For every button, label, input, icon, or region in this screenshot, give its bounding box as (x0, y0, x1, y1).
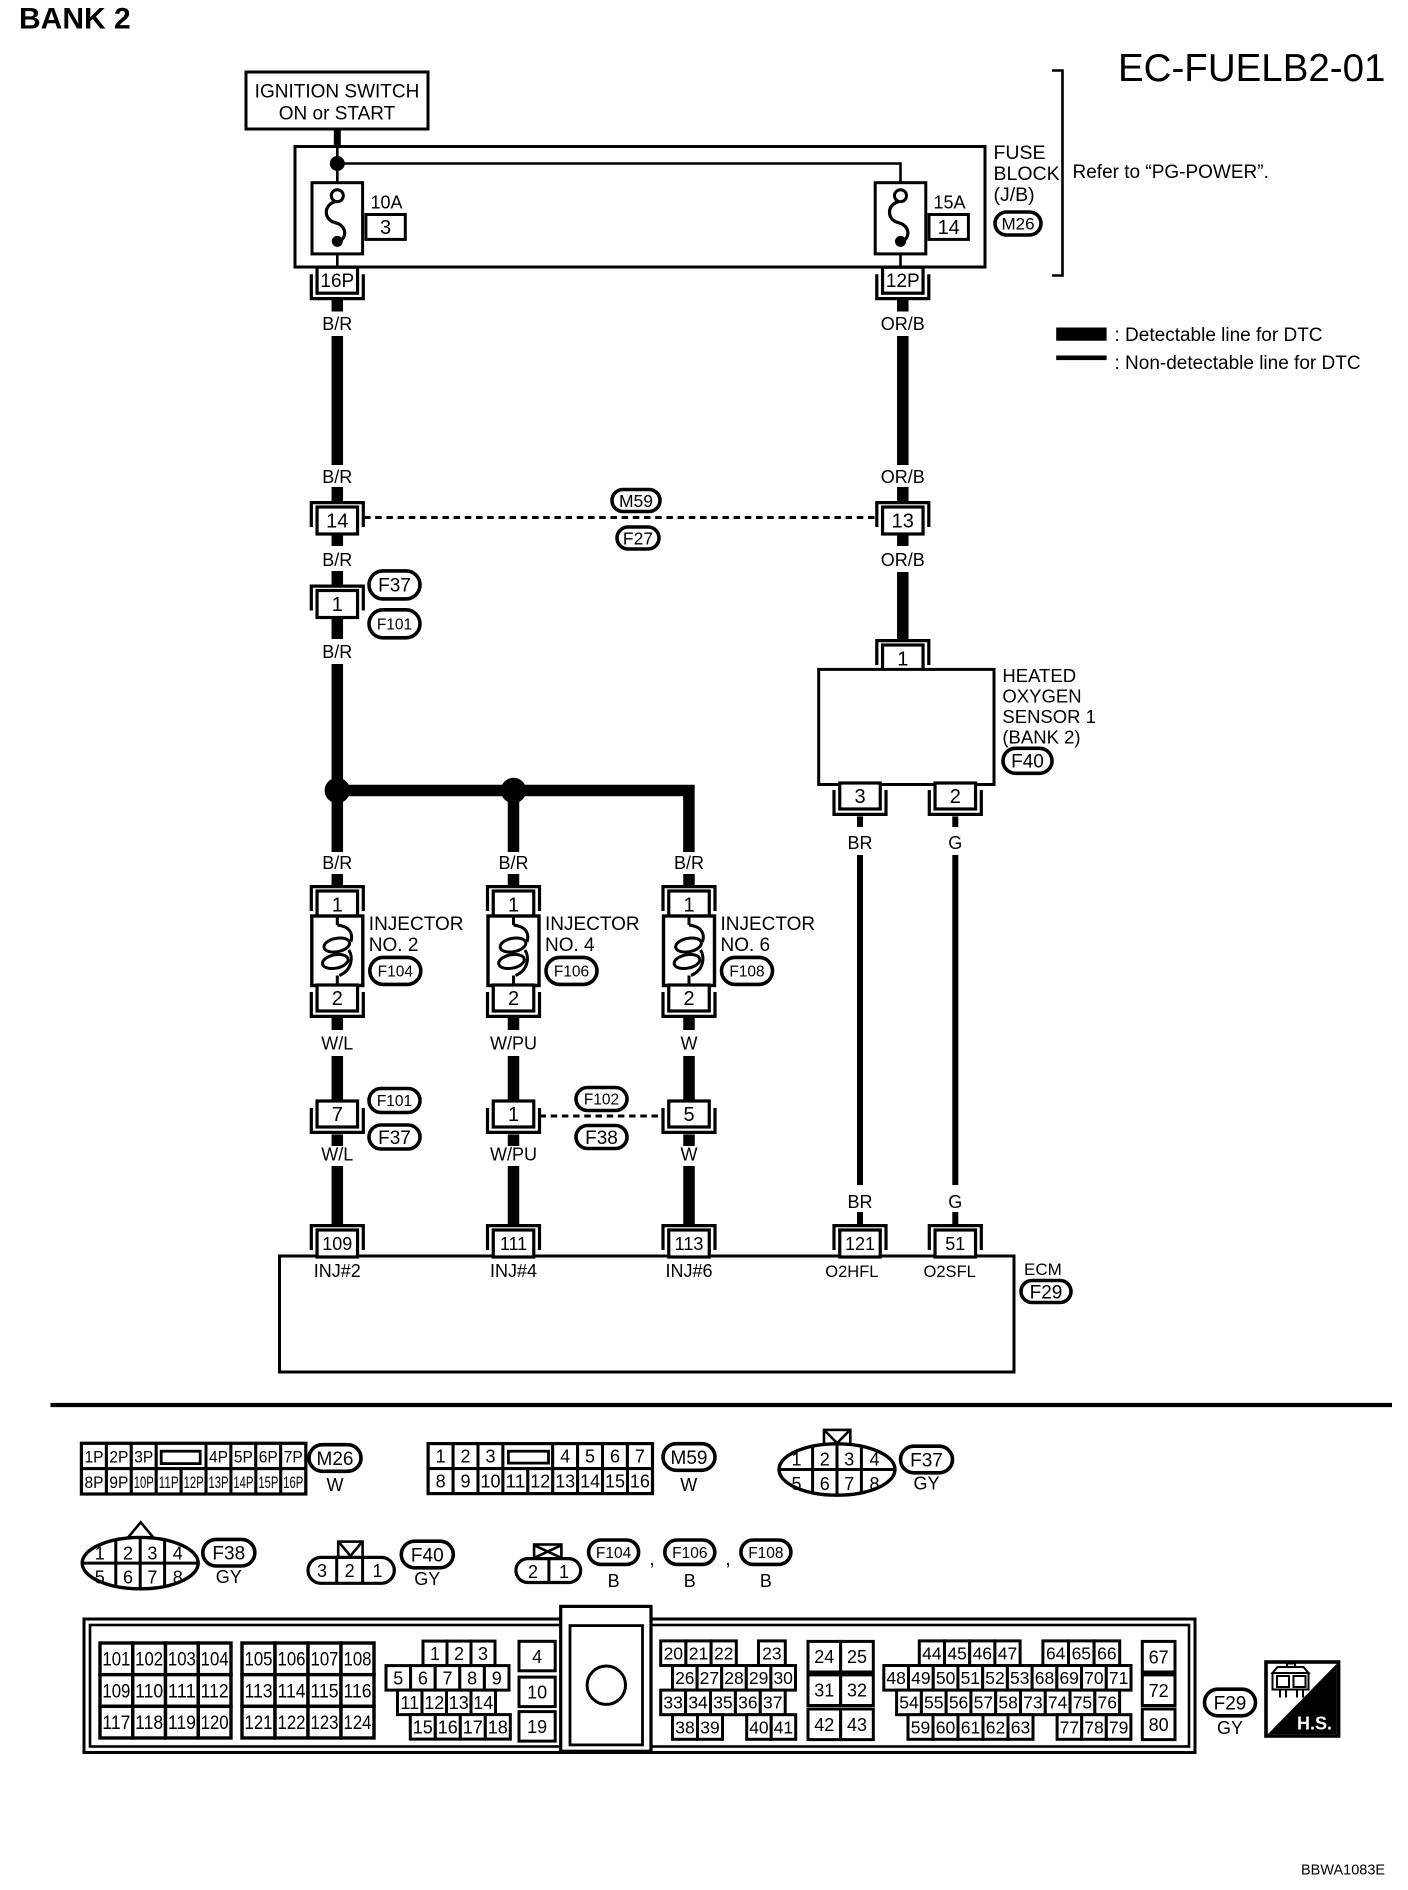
injector no 6 (F108) (663, 887, 715, 1017)
label W/L (321, 1034, 353, 1054)
svg-text:INJECTOR: INJECTOR (721, 914, 816, 935)
label FUSE BLOCK (J/B) (994, 142, 1060, 206)
svg-text:33: 33 (663, 1693, 682, 1713)
label INJECTOR NO. 4 (545, 914, 640, 956)
svg-text:BR: BR (847, 833, 872, 853)
svg-text:51: 51 (945, 1234, 965, 1254)
svg-text:51: 51 (961, 1668, 980, 1688)
note BBWA1083E (1301, 1863, 1385, 1879)
label GY (913, 1474, 939, 1494)
svg-text:5: 5 (791, 1474, 801, 1494)
svg-text:9: 9 (461, 1472, 471, 1492)
label B/R (322, 642, 352, 662)
label 15A (934, 193, 966, 213)
svg-text:B: B (608, 1571, 620, 1591)
svg-text:17: 17 (463, 1717, 483, 1737)
label W/PU (490, 1145, 537, 1165)
svg-text:112: 112 (201, 1681, 229, 1702)
wire B/R to injector no 2 (332, 791, 344, 853)
ECM box (280, 1256, 1015, 1372)
label BR (847, 1192, 872, 1212)
svg-text:B/R: B/R (674, 853, 704, 873)
ref oval F106 (546, 957, 597, 984)
wire G to ECM (952, 855, 958, 1185)
svg-text:61: 61 (961, 1717, 980, 1737)
wire fuse 10A to connector 16P (336, 254, 339, 267)
connector face F29 (ECM) outer shell (84, 1619, 1195, 1753)
svg-text:,: , (725, 1549, 730, 1570)
svg-text:4P: 4P (209, 1449, 228, 1467)
svg-text:7: 7 (332, 1104, 343, 1126)
svg-text:12: 12 (530, 1472, 550, 1492)
svg-text:1P: 1P (84, 1449, 103, 1467)
svg-text:34: 34 (688, 1693, 708, 1713)
svg-text:1: 1 (332, 594, 343, 616)
connector face M59 (428, 1444, 652, 1494)
svg-text:1: 1 (430, 1644, 440, 1664)
ECM face center keyway block (561, 1606, 651, 1751)
svg-text:3: 3 (854, 786, 865, 808)
svg-text:5: 5 (585, 1447, 595, 1467)
svg-text:8: 8 (467, 1668, 477, 1688)
wire stub above injector no 6 (683, 874, 695, 885)
wire stub above injector no 2 (332, 874, 344, 885)
ref oval F108 (741, 1540, 791, 1564)
svg-text:77: 77 (1060, 1717, 1079, 1737)
ref oval F38 (203, 1539, 255, 1566)
svg-text:119: 119 (168, 1713, 196, 1734)
wire stub above ECM 121 (857, 1212, 863, 1224)
note Refer to PG-POWER (1073, 162, 1269, 183)
svg-text:16: 16 (630, 1472, 650, 1492)
svg-text:24: 24 (814, 1647, 834, 1667)
label GY (1217, 1718, 1243, 1738)
svg-text:72: 72 (1149, 1681, 1169, 1701)
svg-text:7: 7 (844, 1474, 854, 1494)
connector ref M26 oval (995, 212, 1041, 235)
svg-text:10A: 10A (371, 193, 403, 213)
svg-text:69: 69 (1059, 1668, 1078, 1688)
svg-text:116: 116 (344, 1681, 372, 1702)
label W/PU (490, 1034, 537, 1054)
wire W/L to ECM 109 (332, 1166, 344, 1224)
label INJ#6 (665, 1261, 712, 1281)
svg-text:79: 79 (1109, 1717, 1128, 1737)
svg-text:1: 1 (683, 895, 694, 917)
fuse number 3 box (366, 215, 405, 240)
svg-text:F37: F37 (910, 1450, 943, 1471)
svg-text:ECM: ECM (1024, 1260, 1062, 1279)
label INJ#4 (490, 1261, 537, 1281)
wire W/PU to connector 1 (508, 1056, 520, 1101)
wire ignition switch to fuse block (334, 129, 341, 147)
svg-text:BBWA1083E: BBWA1083E (1301, 1863, 1385, 1879)
svg-text:H.S.: H.S. (1297, 1714, 1332, 1734)
svg-text:W: W (681, 1145, 698, 1165)
wire stub above ECM 51 (952, 1212, 958, 1224)
svg-text:GY: GY (913, 1474, 939, 1494)
connector 13 (877, 503, 929, 534)
svg-text:INJECTOR: INJECTOR (545, 914, 640, 935)
svg-text:BR: BR (847, 1192, 872, 1212)
ref oval F104 (589, 1540, 639, 1564)
svg-text:GY: GY (414, 1569, 440, 1589)
svg-text:F27: F27 (623, 528, 653, 548)
svg-text:OR/B: OR/B (881, 467, 925, 487)
ref oval F37 (369, 1125, 420, 1149)
svg-text:47: 47 (998, 1644, 1017, 1664)
svg-text:IGNITION SWITCH: IGNITION SWITCH (255, 82, 420, 103)
dashed harness line F102/F38 (540, 1115, 664, 1118)
svg-text:11P: 11P (159, 1474, 179, 1492)
wire B/R 16P to connector 14 (332, 336, 344, 465)
ref oval F37 (369, 571, 420, 599)
wire stub above connector 14 (332, 487, 344, 501)
svg-text:8: 8 (436, 1472, 446, 1492)
wire stub below pin 2 (952, 816, 958, 827)
svg-text:SENSOR 1: SENSOR 1 (1002, 706, 1096, 727)
svg-text:80: 80 (1149, 1715, 1169, 1735)
svg-text:12P: 12P (886, 271, 920, 292)
svg-text:22: 22 (714, 1644, 733, 1664)
connector 14 (311, 503, 363, 534)
svg-text:16: 16 (438, 1717, 458, 1737)
svg-text:6: 6 (418, 1668, 428, 1688)
label B (760, 1571, 772, 1591)
wire stub below injector no 2 (332, 1018, 344, 1030)
svg-text:BANK 2: BANK 2 (19, 3, 131, 36)
wire branch bus (337, 791, 689, 853)
svg-text:5: 5 (393, 1668, 403, 1688)
svg-text:2: 2 (461, 1447, 471, 1467)
svg-text:107: 107 (311, 1650, 339, 1671)
svg-text:4: 4 (869, 1450, 879, 1470)
svg-text:78: 78 (1084, 1717, 1103, 1737)
svg-text:F38: F38 (585, 1128, 618, 1149)
label B/R (322, 853, 352, 873)
svg-text:23: 23 (762, 1644, 781, 1664)
label BR (847, 833, 872, 853)
svg-text:19: 19 (527, 1717, 547, 1737)
svg-text:6: 6 (123, 1567, 133, 1587)
svg-text:122: 122 (278, 1713, 306, 1734)
wire stub below connector 5 (683, 1134, 695, 1146)
wire inside fuse block to fuse 10A (336, 147, 339, 183)
svg-text:2: 2 (332, 988, 343, 1010)
ECM face grid 101-120 (100, 1643, 231, 1738)
connector 16P (311, 267, 363, 298)
svg-text:59: 59 (911, 1717, 930, 1737)
svg-text:108: 108 (344, 1650, 372, 1671)
svg-text:W: W (681, 1034, 698, 1054)
svg-text:40: 40 (749, 1717, 769, 1737)
svg-text:29: 29 (749, 1668, 768, 1688)
svg-text:2: 2 (123, 1543, 133, 1563)
svg-text:15P: 15P (258, 1474, 278, 1492)
svg-text:B/R: B/R (322, 642, 352, 662)
junction node B (501, 778, 526, 803)
svg-text:111: 111 (168, 1681, 196, 1702)
connector face F38 (82, 1522, 198, 1589)
label 10A (371, 193, 403, 213)
svg-text:102: 102 (135, 1650, 163, 1671)
svg-text:55: 55 (924, 1693, 943, 1713)
svg-text:10: 10 (527, 1683, 547, 1703)
svg-text:11: 11 (505, 1472, 525, 1492)
svg-text:2: 2 (820, 1450, 830, 1470)
svg-text:113: 113 (245, 1681, 273, 1702)
svg-text:103: 103 (168, 1650, 196, 1671)
svg-text:1: 1 (95, 1543, 105, 1563)
label B/R (322, 467, 352, 487)
svg-text:F104: F104 (596, 1545, 632, 1562)
svg-text:45: 45 (947, 1644, 966, 1664)
svg-text:3: 3 (147, 1543, 157, 1563)
ECM face cells 67,72,80 (1142, 1641, 1175, 1739)
label OR/B (881, 467, 925, 487)
ECM pin 113 (663, 1226, 715, 1257)
svg-text:54: 54 (899, 1693, 919, 1713)
svg-text:B: B (760, 1571, 772, 1591)
svg-text:65: 65 (1072, 1644, 1091, 1664)
svg-text:5P: 5P (234, 1449, 253, 1467)
svg-text:114: 114 (278, 1681, 306, 1702)
svg-text:38: 38 (675, 1717, 694, 1737)
svg-text:O2SFL: O2SFL (924, 1263, 976, 1281)
svg-text:F101: F101 (377, 1093, 412, 1110)
wire stub above injector no 4 (508, 874, 520, 885)
svg-text:15A: 15A (934, 193, 966, 213)
junction node A (325, 778, 350, 803)
ref oval F29 (1205, 1689, 1256, 1716)
svg-text:3P: 3P (134, 1449, 153, 1467)
svg-text:BLOCK: BLOCK (994, 163, 1060, 185)
svg-text:4: 4 (532, 1647, 542, 1667)
svg-text:M26: M26 (317, 1449, 354, 1470)
svg-text:2P: 2P (109, 1449, 128, 1467)
label OR/B (881, 314, 925, 334)
wire B/R to injector no 4 (508, 791, 520, 853)
label ECM (1024, 1260, 1062, 1279)
svg-text:F40: F40 (411, 1545, 444, 1566)
svg-text:8: 8 (173, 1567, 183, 1587)
wire W to connector 5 (683, 1056, 695, 1101)
svg-text:71: 71 (1109, 1668, 1128, 1688)
svg-text:F29: F29 (1030, 1282, 1063, 1303)
connector face F40 (308, 1542, 394, 1584)
svg-text:56: 56 (949, 1693, 968, 1713)
title EC-FUELB2-01 (1118, 47, 1385, 90)
fuse number 14 box (929, 215, 968, 240)
label B/R (322, 314, 352, 334)
svg-text:14: 14 (580, 1472, 600, 1492)
connector face F104/F106/F108 (516, 1545, 581, 1583)
svg-text:12P: 12P (184, 1474, 204, 1492)
legend non-detectable line (1056, 353, 1360, 374)
wire stub above connector 1 (332, 571, 344, 585)
svg-text:INJECTOR: INJECTOR (369, 914, 464, 935)
svg-text:115: 115 (311, 1681, 339, 1702)
svg-text:9P: 9P (109, 1474, 128, 1492)
svg-text:42: 42 (814, 1715, 834, 1735)
ref oval M59 (663, 1444, 715, 1471)
svg-text:110: 110 (135, 1681, 163, 1702)
svg-text:36: 36 (738, 1693, 757, 1713)
svg-text:14P: 14P (233, 1474, 253, 1492)
label OR/B (881, 550, 925, 570)
svg-text:27: 27 (700, 1668, 719, 1688)
svg-text:6: 6 (820, 1474, 830, 1494)
svg-text:M59: M59 (619, 491, 653, 511)
label B/R (498, 853, 528, 873)
svg-text:63: 63 (1011, 1717, 1030, 1737)
svg-text:NO. 6: NO. 6 (721, 935, 771, 956)
svg-text:8: 8 (869, 1474, 879, 1494)
svg-text:GY: GY (216, 1567, 242, 1587)
label GY (216, 1567, 242, 1587)
label INJ#2 (314, 1261, 361, 1281)
ECM face grid 44-79 stepped (884, 1641, 1131, 1739)
svg-text:: Non-detectable line for DTC: : Non-detectable line for DTC (1115, 353, 1361, 374)
svg-text:46: 46 (973, 1644, 992, 1664)
wire OR/B to oxygen sensor (897, 572, 909, 639)
ref oval F104 (370, 957, 421, 984)
label INJECTOR NO. 6 (721, 914, 816, 956)
ref oval F102 (576, 1088, 627, 1111)
injector no 2 (F104) (311, 887, 363, 1017)
wire stub below connector 7 (332, 1134, 344, 1146)
label GY (414, 1569, 440, 1589)
svg-text:7: 7 (442, 1668, 452, 1688)
svg-text:F104: F104 (378, 963, 414, 980)
ECM face cells 4,10,19 (519, 1641, 555, 1741)
svg-text:W: W (680, 1475, 697, 1495)
dashed harness line M59/F27 (364, 516, 877, 519)
svg-text:62: 62 (986, 1717, 1005, 1737)
svg-text:106: 106 (278, 1650, 306, 1671)
svg-text:105: 105 (245, 1650, 273, 1671)
svg-text:20: 20 (664, 1644, 684, 1664)
svg-text:2: 2 (528, 1562, 538, 1582)
svg-text:5: 5 (683, 1104, 694, 1126)
svg-text:123: 123 (311, 1713, 339, 1734)
svg-text:3: 3 (478, 1644, 488, 1664)
svg-text:15: 15 (605, 1472, 625, 1492)
svg-text:25: 25 (847, 1647, 867, 1667)
wire stub below injector no 6 (683, 1018, 695, 1030)
ECM pin 109 (311, 1226, 363, 1257)
svg-text:B/R: B/R (322, 467, 352, 487)
svg-text:13: 13 (892, 511, 914, 533)
wire stub above connector 13 (897, 487, 909, 501)
connector 12P (877, 267, 929, 298)
svg-text:G: G (948, 1192, 962, 1212)
ref oval F40 (1003, 748, 1052, 773)
svg-text:21: 21 (689, 1644, 708, 1664)
svg-text:53: 53 (1010, 1668, 1029, 1688)
svg-text:15: 15 (413, 1717, 433, 1737)
ignition switch box (246, 72, 428, 129)
svg-text:75: 75 (1073, 1693, 1092, 1713)
fuse 10A (312, 183, 363, 254)
svg-text:G: G (948, 833, 962, 853)
svg-text:FUSE: FUSE (994, 142, 1046, 164)
svg-text:,: , (649, 1549, 654, 1570)
label HEATED OXYGEN SENSOR 1 (BANK 2) (1002, 665, 1096, 748)
svg-text:F38: F38 (212, 1544, 245, 1565)
svg-text:109: 109 (322, 1234, 352, 1254)
svg-text:74: 74 (1048, 1693, 1068, 1713)
svg-text:Refer to “PG-POWER”.: Refer to “PG-POWER”. (1073, 162, 1269, 183)
label B (684, 1571, 696, 1591)
svg-text:121: 121 (245, 1713, 273, 1734)
svg-text:GY: GY (1217, 1718, 1243, 1738)
connector face M26 (82, 1443, 306, 1494)
svg-text:W/L: W/L (321, 1145, 353, 1165)
svg-text:1: 1 (372, 1561, 382, 1581)
svg-text:67: 67 (1149, 1647, 1169, 1667)
label B/R (322, 550, 352, 570)
svg-text:B/R: B/R (322, 550, 352, 570)
svg-text:11: 11 (400, 1693, 419, 1713)
svg-text:118: 118 (135, 1713, 163, 1734)
svg-text:6P: 6P (259, 1449, 278, 1467)
wire OR/B stub below 12P (897, 299, 909, 312)
ECM pin 111 (488, 1226, 540, 1257)
svg-text:14: 14 (938, 217, 960, 239)
svg-text:113: 113 (675, 1234, 704, 1254)
svg-text:121: 121 (845, 1234, 875, 1254)
svg-text:2: 2 (508, 988, 519, 1010)
svg-text:B/R: B/R (322, 853, 352, 873)
comma (649, 1549, 654, 1570)
svg-text:1: 1 (897, 649, 908, 671)
svg-text:13P: 13P (209, 1474, 229, 1492)
svg-text:43: 43 (847, 1715, 867, 1735)
svg-text:F29: F29 (1214, 1693, 1247, 1714)
svg-text:101: 101 (102, 1650, 130, 1671)
label W/L (321, 1145, 353, 1165)
svg-text:(J/B): (J/B) (994, 184, 1035, 206)
ref oval F27 (617, 527, 659, 549)
connector 1 (F37/F101) (311, 586, 363, 617)
ref oval F29 (1021, 1281, 1071, 1304)
svg-text:5: 5 (95, 1567, 105, 1587)
svg-text:13: 13 (555, 1472, 575, 1492)
svg-text:70: 70 (1084, 1668, 1104, 1688)
wire fuse 15A to connector 12P (899, 254, 902, 267)
wire W to ECM 113 (683, 1166, 695, 1224)
svg-text:14: 14 (473, 1693, 493, 1713)
svg-text:16P: 16P (320, 271, 354, 292)
svg-text:1: 1 (332, 895, 343, 917)
ref oval M59 (612, 490, 660, 512)
svg-text:M59: M59 (671, 1448, 708, 1469)
svg-text:60: 60 (936, 1717, 956, 1737)
svg-text:INJ#2: INJ#2 (314, 1261, 361, 1281)
ref oval M26 (309, 1445, 361, 1472)
svg-text:W/L: W/L (321, 1034, 353, 1054)
fuse block box (295, 147, 985, 268)
svg-text:F108: F108 (748, 1545, 783, 1562)
label G (948, 833, 962, 853)
ref oval F37 (901, 1446, 953, 1473)
svg-text:9: 9 (492, 1668, 502, 1688)
svg-text:26: 26 (675, 1668, 694, 1688)
svg-text:NO. 2: NO. 2 (369, 935, 419, 956)
connector 5 (663, 1101, 715, 1132)
svg-text:111: 111 (500, 1234, 527, 1254)
